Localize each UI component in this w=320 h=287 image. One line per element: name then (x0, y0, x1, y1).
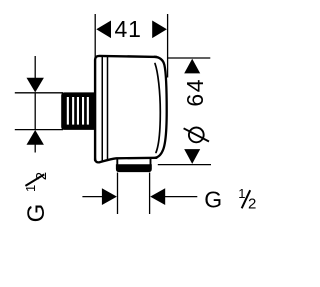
svg-text:1: 1 (238, 186, 245, 201)
svg-text:64: 64 (182, 78, 208, 107)
svg-text:2: 2 (248, 196, 256, 213)
svg-text:G: G (23, 204, 50, 223)
svg-text:41: 41 (115, 16, 142, 42)
svg-text:1: 1 (23, 185, 38, 192)
svg-text:G: G (204, 187, 222, 213)
svg-text:2: 2 (33, 172, 50, 180)
